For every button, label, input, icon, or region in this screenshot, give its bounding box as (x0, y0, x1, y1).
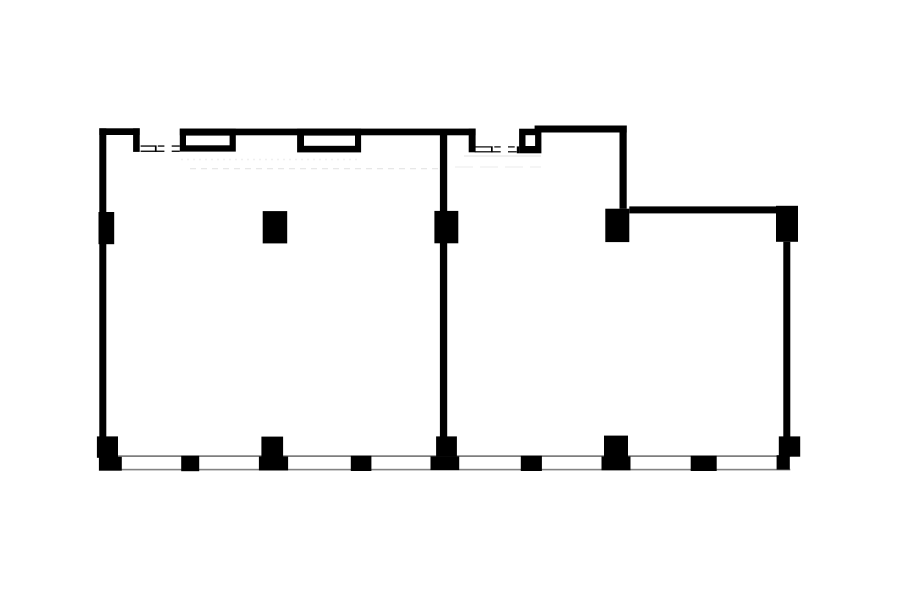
window bay W2 glass (304, 136, 355, 146)
wall step-down at end of top bar (469, 129, 476, 153)
shaft column ring hole (526, 135, 536, 146)
pier S3 (521, 456, 542, 471)
column A at wall junction (605, 209, 629, 242)
opening 1 bottom line segment b (172, 151, 180, 152)
pier S2 (351, 456, 372, 471)
opening 2 top line segment b (494, 146, 500, 147)
column on left wall (99, 212, 115, 244)
opening 2 top line segment c (508, 146, 515, 147)
wall right-section vertical drop (620, 126, 627, 209)
wall right exterior (783, 242, 790, 437)
column C4 base (602, 457, 631, 471)
window bay W2 frame (297, 129, 361, 153)
opening 2 bottom line segment b (508, 151, 517, 152)
shaft column ring foot (517, 146, 519, 153)
wall top-left horizontal (99, 128, 139, 135)
wire faint line middle upper (464, 155, 541, 157)
wire faint dashed ceiling line left (190, 168, 440, 170)
opening 2 bottom line segment a (475, 151, 501, 152)
column B top right (776, 206, 798, 242)
opening 1 bottom line segment a (141, 151, 165, 152)
window bay W1 glass (186, 136, 230, 146)
wire faint line middle lower (455, 166, 541, 168)
column C1 base (99, 457, 122, 471)
shaft column ring body (519, 129, 541, 154)
column C3 stem (436, 436, 457, 456)
column C1 stem (97, 436, 118, 457)
opening 1 top line segment c (172, 145, 180, 146)
wall middle interior (440, 132, 447, 437)
column C4 stem (604, 436, 628, 457)
wall top bar right section (535, 126, 627, 133)
wire faint tick row under bays (181, 159, 360, 161)
wire lower terrace line (99, 469, 790, 471)
opening 2 mullion tick (491, 146, 493, 152)
wall left exterior (99, 128, 106, 437)
opening 1 mullion tick (155, 145, 157, 152)
opening 2 top line segment a (475, 146, 491, 147)
pier S1 (181, 456, 199, 472)
column C3 base (431, 456, 460, 470)
column C5 stem (779, 436, 800, 456)
wall top bar left section (180, 129, 476, 136)
column C5 base (777, 455, 790, 469)
opening 1 top line segment b (158, 145, 165, 146)
opening 1 top line segment a (141, 145, 156, 146)
wall right-section horizontal (629, 206, 776, 213)
wire bottom facade line (99, 455, 790, 456)
window bay W1 frame (180, 129, 236, 152)
column C2 base (259, 457, 288, 471)
column freestanding (263, 211, 288, 243)
wall top-left notch down (133, 128, 140, 152)
column C2 stem (261, 437, 283, 457)
column on middle wall (434, 211, 458, 243)
pier S4 (691, 456, 717, 471)
